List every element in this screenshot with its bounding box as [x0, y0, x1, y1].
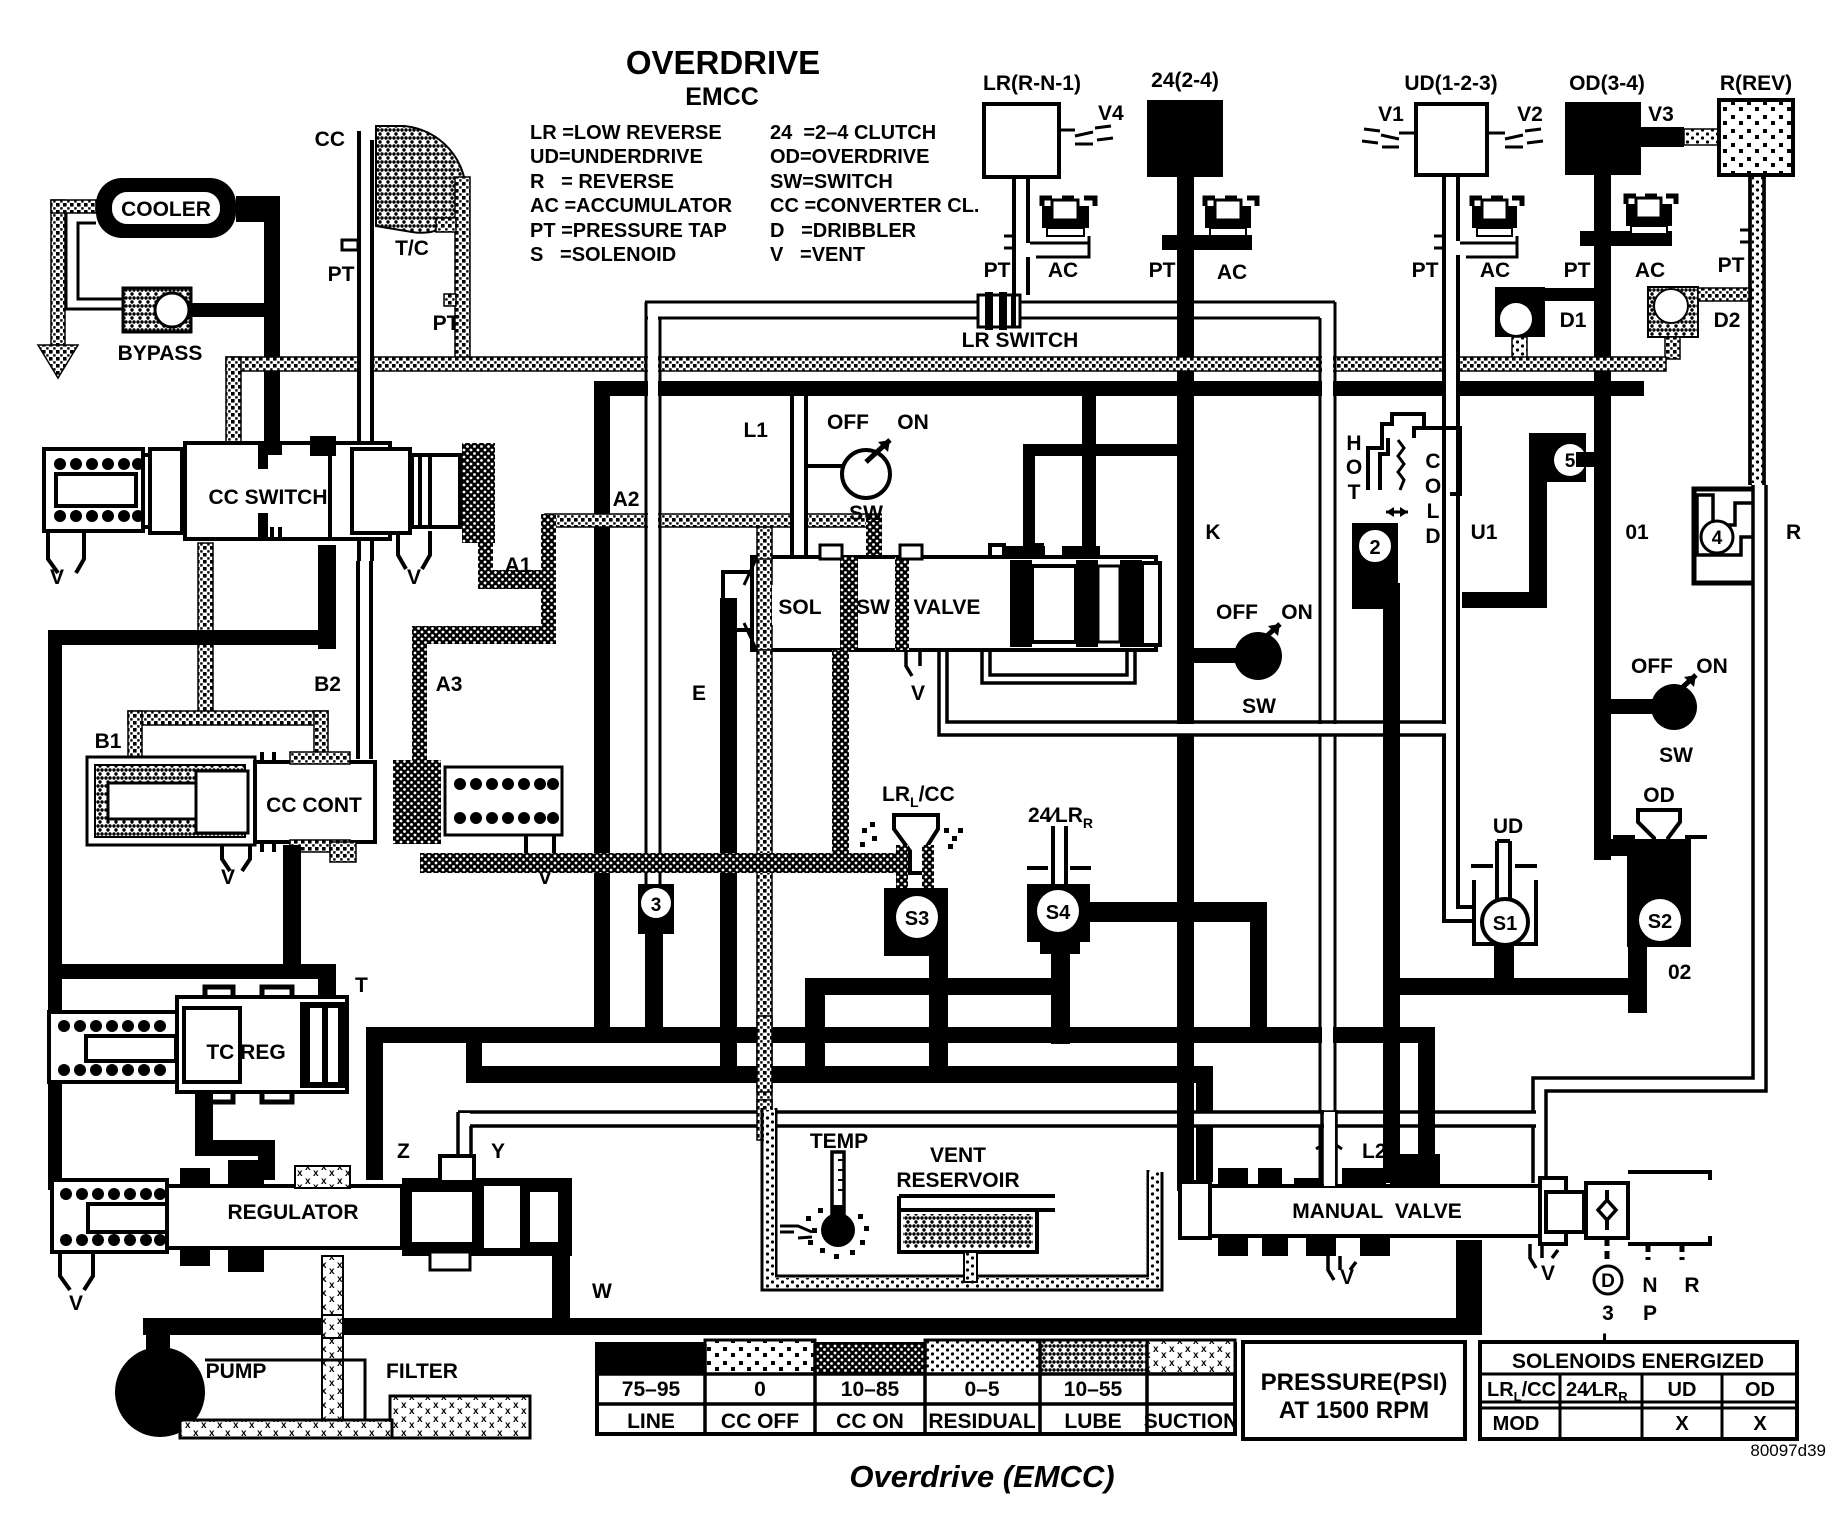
circle3 channel re-stamp over A2 — [648, 506, 658, 534]
svg-text:RESIDUAL: RESIDUAL — [928, 1410, 1036, 1433]
svg-text:V: V — [911, 682, 925, 705]
drain arrowhead — [38, 345, 78, 378]
svg-text:OFF: OFF — [1631, 655, 1673, 678]
cooler drain stipple line — [51, 200, 65, 345]
svg-text:SOL: SOL — [778, 596, 821, 619]
S4 bottom stub — [1051, 954, 1070, 1044]
svg-text:OD: OD — [1643, 784, 1675, 807]
spool center bar — [1540, 1178, 1566, 1244]
V vents below — [1328, 1256, 1356, 1280]
solenoid S2 with funnel — [1594, 784, 1707, 1013]
svg-text:K: K — [1205, 521, 1220, 544]
wire 5 down-left to UD channel — [1529, 482, 1547, 608]
svg-text:10–85: 10–85 — [841, 1378, 900, 1401]
svg-text:PUMP: PUMP — [206, 1360, 267, 1383]
name row — [627, 1410, 1238, 1433]
swatch LUBE dense stipple — [1040, 1340, 1147, 1374]
svg-text:PT: PT — [433, 312, 460, 335]
W port — [552, 1252, 570, 1324]
R stem overlay — [1752, 177, 1763, 483]
svg-text:AC: AC — [1480, 259, 1510, 282]
PT tab on T/C right line — [444, 294, 456, 306]
svg-text:OD(3-4): OD(3-4) — [1569, 72, 1645, 95]
crosshatch line CC CONT to S3 — [420, 853, 896, 873]
solenoid circle 3 — [638, 884, 674, 1030]
svg-text:V: V — [221, 866, 235, 889]
S3 funnel — [894, 815, 938, 873]
switch SW2 (center) — [1194, 601, 1313, 718]
LR clutch box — [984, 104, 1059, 177]
filter — [180, 1360, 530, 1438]
svg-text:0: 0 — [754, 1378, 766, 1401]
stipple bore — [95, 765, 245, 837]
svg-text:V: V — [69, 1292, 83, 1315]
L1 white channel down to solenoid body — [793, 396, 805, 557]
R REV clutch group — [1718, 72, 1793, 485]
Y white channel from R3 area down to regulator — [458, 1113, 1536, 1125]
swatch CC OFF sparse dots — [705, 1340, 815, 1374]
svg-text:L1: L1 — [743, 419, 768, 442]
T/C dome stippled — [376, 126, 466, 233]
bottom black ports — [1218, 1236, 1248, 1256]
svg-text:A3: A3 — [436, 673, 463, 696]
svg-text:AC: AC — [1048, 259, 1078, 282]
LR switch right thin channels — [1020, 302, 1335, 318]
dribbler D1 — [1495, 287, 1595, 359]
thermal valve HOT/COLD — [1346, 414, 1460, 1183]
S1 bottom stub — [1494, 944, 1514, 992]
svg-text:PT: PT — [1149, 259, 1176, 282]
svg-text:FILTER: FILTER — [386, 1360, 458, 1383]
svg-text:TC REG: TC REG — [206, 1041, 285, 1064]
svg-text:SUCTION: SUCTION — [1144, 1410, 1239, 1433]
bypass body — [123, 288, 191, 332]
body — [177, 997, 347, 1092]
B1 stipple loop — [128, 711, 328, 725]
PT tab on R channel — [1740, 230, 1750, 242]
OD clutch group — [1564, 72, 1720, 860]
svg-text:UD: UD — [1493, 815, 1523, 838]
UD stem channel — [1444, 175, 1458, 905]
circle 3 white channel vertical — [646, 302, 660, 884]
SOL label box — [772, 585, 838, 625]
wire R4 solenoid collector line — [805, 978, 1070, 995]
switch SW3 (right) — [1611, 655, 1728, 767]
svg-text:SW: SW — [849, 502, 883, 525]
svg-text:PT: PT — [328, 263, 355, 286]
legend column 1 — [530, 122, 733, 266]
crosshatch band at SW — [840, 557, 858, 650]
A2 stipple line horizontal — [545, 514, 881, 527]
V drain bracket mid — [398, 531, 430, 569]
REGULATOR valve assembly — [52, 1156, 612, 1324]
box 2 drain down — [1383, 583, 1400, 1183]
sprinkle dots around bulb — [806, 1208, 869, 1259]
CC CONT valve assembly — [87, 752, 562, 979]
left end cap — [723, 572, 753, 630]
B2 white channel from CC SWITCH down to CC CONT — [359, 561, 370, 759]
solenoid S4 — [805, 804, 1267, 1078]
svg-text:OFF: OFF — [1216, 601, 1258, 624]
svg-text:COOLER: COOLER — [121, 198, 211, 221]
svg-text:D: D — [1601, 1271, 1615, 1292]
body — [167, 1186, 402, 1248]
V drains — [222, 845, 250, 871]
24 accumulator — [1205, 198, 1257, 236]
wavy element — [1398, 440, 1404, 490]
svg-text:OFF: OFF — [827, 411, 869, 434]
wire T line: left vertical to TC REG — [48, 964, 336, 979]
swatch LINE solid — [597, 1344, 705, 1374]
OD accumulator — [1626, 196, 1676, 234]
spring box right — [445, 767, 562, 835]
S4 body — [1027, 884, 1090, 942]
svg-text:CC: CC — [315, 128, 345, 151]
svg-text:OVERDRIVE: OVERDRIVE — [626, 44, 820, 81]
svg-text:L: L — [1427, 500, 1440, 523]
svg-text:Y: Y — [491, 1140, 505, 1163]
V vent below valve — [906, 650, 920, 676]
svg-text:AC =ACCUMULATOR: AC =ACCUMULATOR — [530, 195, 733, 217]
funnel left feeding bulb — [780, 1226, 812, 1238]
svg-text:A2: A2 — [613, 488, 640, 511]
stipple tube through SOL — [757, 557, 772, 650]
svg-text:T: T — [1348, 481, 1361, 504]
svg-text:CC =CONVERTER CL.: CC =CONVERTER CL. — [770, 195, 979, 217]
V3 black stub and dotted feed to R box — [1641, 127, 1684, 147]
outer shell — [87, 757, 255, 845]
svg-text:24 =2–4 CLUTCH: 24 =2–4 CLUTCH — [770, 122, 936, 144]
thermal element outline — [1368, 414, 1424, 490]
AC connection lines — [1030, 236, 1089, 257]
dribbler D2 — [1648, 287, 1752, 359]
svg-text:3: 3 — [1602, 1302, 1614, 1325]
24 PT/AC bar — [1162, 235, 1252, 250]
svg-text:EMCC: EMCC — [685, 83, 759, 111]
svg-text:10–55: 10–55 — [1064, 1378, 1123, 1401]
solenoid S1 with funnel — [1444, 815, 1537, 992]
circle 3 channel overlay — [648, 304, 658, 884]
svg-text:R: R — [1786, 521, 1801, 544]
L2 channel overlay — [1322, 320, 1333, 1182]
S3 bottom stub down — [929, 956, 948, 1078]
svg-text:V2: V2 — [1517, 103, 1543, 126]
V drain left — [60, 1252, 93, 1290]
S4 stem channel — [1053, 826, 1066, 884]
svg-text:PT: PT — [1412, 259, 1439, 282]
stipple line CC SWITCH down to B1/CC CONT — [198, 543, 213, 713]
TC REG bottom out — [195, 1092, 213, 1152]
UD clutch group — [1362, 72, 1543, 905]
PT tab — [1434, 236, 1444, 248]
svg-text:S3: S3 — [905, 908, 929, 930]
crosshatch output down from SW — [832, 650, 849, 866]
svg-text:X: X — [1753, 1413, 1767, 1435]
svg-text:LRL/CC: LRL/CC — [882, 783, 955, 810]
right section spool — [402, 1178, 572, 1256]
svg-text:D1: D1 — [1560, 309, 1587, 332]
left end cap — [1180, 1182, 1210, 1238]
wire cooler out right — [236, 195, 266, 197]
svg-text:UD(1-2-3): UD(1-2-3) — [1404, 72, 1497, 95]
svg-text:PT =PRESSURE TAP: PT =PRESSURE TAP — [530, 220, 727, 242]
A3 crosshatch line: down from A2 corner, left, down to CC CONT — [412, 626, 556, 644]
swatch RESIDUAL stipple — [925, 1340, 1040, 1374]
wire SW3 to OD stem — [1611, 699, 1653, 714]
svg-text:MANUAL VALVE: MANUAL VALVE — [1292, 1200, 1462, 1223]
svg-text:CC OFF: CC OFF — [721, 1410, 799, 1433]
spring housing left — [44, 449, 143, 531]
svg-text:MOD: MOD — [1493, 1413, 1540, 1435]
PT tab on CC line — [342, 240, 358, 250]
svg-text:U1: U1 — [1471, 521, 1498, 544]
UD accumulator — [1472, 198, 1522, 236]
svg-text:BYPASS: BYPASS — [118, 342, 203, 365]
spool black lands — [1010, 560, 1032, 647]
box 2 — [1352, 523, 1398, 583]
legend column 2 — [770, 122, 979, 266]
T/C white channel down — [357, 131, 361, 561]
24 clutch box solid — [1147, 100, 1223, 177]
svg-text:V =VENT: V =VENT — [770, 244, 865, 266]
torque converter T/C group — [315, 126, 470, 561]
S2 bottom stub — [1628, 947, 1647, 1013]
R REV channel lower: down right side, left, down to manual valve — [1534, 485, 1765, 1183]
top ports: cooler line enters — [264, 440, 280, 455]
wire D1 to OD stem — [1545, 288, 1595, 301]
E black line down from left cap — [720, 598, 737, 1078]
double arrow — [1386, 511, 1408, 514]
top ports — [820, 545, 842, 559]
svg-text:2: 2 — [1369, 537, 1380, 559]
svg-text:80097d39: 80097d39 — [1750, 1441, 1826, 1460]
svg-text:5: 5 — [1565, 451, 1576, 472]
SOL stipple tube re-stamp over R2 R3 — [757, 1016, 772, 1092]
wire cooler bottom to bypass (thin channel) — [66, 213, 123, 309]
svg-text:D: D — [1425, 525, 1440, 548]
spring housing — [52, 1180, 167, 1252]
svg-text:VALVE: VALVE — [914, 596, 981, 619]
value row — [622, 1378, 1123, 1401]
svg-text:N: N — [1642, 1274, 1657, 1297]
long stipple line H1 (CC off return) — [226, 357, 1666, 371]
suction re-stamp over main line — [322, 1315, 343, 1338]
svg-text:ON: ON — [897, 411, 929, 434]
crosshatch section — [393, 760, 441, 844]
svg-text:SOLENOIDS ENERGIZED: SOLENOIDS ENERGIZED — [1512, 1350, 1764, 1373]
svg-text:REGULATOR: REGULATOR — [227, 1201, 358, 1224]
L-channel down from LR switch lines — [1320, 302, 1335, 1182]
svg-text:OD: OD — [1745, 1379, 1775, 1401]
wire R5: S1/S2 bottoms — [1395, 978, 1647, 995]
H2 left corner down (A2 feed line) — [594, 381, 610, 1027]
top notches — [205, 987, 292, 997]
OD stem elbow into S2 — [1594, 839, 1691, 856]
R clutch box dotted fill — [1719, 100, 1793, 175]
svg-text:V: V — [50, 566, 64, 589]
LR switch left thin channel to circle 3 line — [645, 302, 979, 318]
svg-text:S =SOLENOID: S =SOLENOID — [530, 244, 676, 266]
OD stem thick — [1594, 175, 1611, 860]
valve body — [143, 455, 373, 527]
spool lands — [258, 443, 268, 469]
long black line H2 — [594, 381, 1644, 396]
A1 crosshatch channel from valve to A2 — [478, 536, 493, 582]
svg-text:ON: ON — [1281, 601, 1313, 624]
wire Z line: from R2 down at TCREG right — [366, 1043, 383, 1180]
svg-text:O: O — [1346, 456, 1362, 479]
V4 vent notch — [1057, 126, 1113, 144]
svg-text:O: O — [1425, 475, 1441, 498]
L2 white channel — [1322, 1110, 1336, 1186]
L2 channel re-stamp over R2 — [1322, 1018, 1333, 1050]
svg-text:CC CONT: CC CONT — [266, 794, 362, 817]
S4 output corner down to R2 — [1250, 902, 1267, 1043]
svg-text:D =DRIBBLER: D =DRIBBLER — [770, 220, 917, 242]
wire D2 to R channel — [1698, 288, 1752, 301]
wire SW2 to 24 line — [1194, 648, 1236, 663]
V drain bracket left — [48, 531, 84, 573]
re-stamp verticals crossing Y channel — [757, 1100, 772, 1140]
T port stub down into TC REG — [318, 964, 336, 997]
pressure note box — [1243, 1342, 1465, 1439]
right crosshatch block — [462, 443, 495, 543]
PT tab — [1004, 236, 1014, 248]
svg-text:E: E — [692, 682, 706, 705]
svg-text:RESERVOIR: RESERVOIR — [896, 1169, 1019, 1192]
D 3 L N P R labels — [1594, 1266, 1622, 1294]
svg-text:SW: SW — [856, 596, 890, 619]
D2 drain stub — [1665, 337, 1680, 359]
main body — [752, 557, 1156, 650]
pump body outline — [205, 1360, 365, 1420]
svg-text:PRESSURE(PSI): PRESSURE(PSI) — [1261, 1369, 1448, 1396]
wire cooler vertical down — [264, 196, 280, 451]
legend pattern table — [597, 1340, 1238, 1434]
solenoid circle 5 — [1462, 433, 1596, 608]
svg-text:V4: V4 — [1098, 102, 1124, 125]
svg-text:B2: B2 — [314, 673, 341, 696]
svg-text:S4: S4 — [1046, 902, 1071, 924]
svg-text:VENT: VENT — [930, 1144, 986, 1167]
LR clutch group — [962, 72, 1124, 352]
svg-text:PT: PT — [1564, 259, 1591, 282]
svg-text:S1: S1 — [1493, 913, 1517, 935]
svg-text:R: R — [1684, 1274, 1699, 1297]
svg-text:A1: A1 — [505, 554, 532, 577]
LR accumulator — [1042, 198, 1095, 236]
svg-text:H: H — [1346, 432, 1361, 455]
svg-text:V1: V1 — [1378, 103, 1404, 126]
valve loop outline below — [982, 650, 1135, 683]
svg-text:CC SWITCH: CC SWITCH — [209, 486, 328, 509]
A2 left corner down to A3 — [541, 514, 556, 644]
V1 vent notch — [1362, 129, 1416, 147]
tank drain — [964, 1252, 977, 1282]
svg-text:SW: SW — [1242, 695, 1276, 718]
svg-text:P: P — [1643, 1302, 1657, 1325]
wire bypass to main line — [188, 303, 266, 317]
svg-text:SW: SW — [1659, 744, 1693, 767]
24 stem thick — [1177, 177, 1194, 1191]
svg-text:02: 02 — [1668, 961, 1691, 984]
body center — [255, 762, 375, 842]
circle 4 relief bracket — [1694, 489, 1755, 583]
SW1 circle — [842, 450, 890, 498]
cooler body — [96, 178, 236, 238]
solenoid S3 with funnel — [860, 783, 963, 1078]
svg-text:01: 01 — [1625, 521, 1649, 544]
svg-text:B1: B1 — [95, 730, 122, 753]
solenoid valve assembly SOL SW VALVE — [692, 527, 1446, 1120]
svg-text:UD: UD — [1668, 1379, 1697, 1401]
spring housing — [49, 1012, 177, 1082]
svg-text:X: X — [1675, 1413, 1689, 1435]
vent reservoir enclosure stipple channel — [762, 1108, 1162, 1290]
svg-text:D2: D2 — [1714, 309, 1741, 332]
solenoids energized table — [1480, 1342, 1797, 1439]
svg-text:LUBE: LUBE — [1064, 1410, 1121, 1433]
svg-text:ON: ON — [1696, 655, 1728, 678]
manual valve assembly — [1180, 1110, 1710, 1353]
S4 right output to SW2 vertical — [1090, 902, 1267, 922]
S1 body outline — [1474, 880, 1536, 944]
svg-text:24(2-4): 24(2-4) — [1151, 69, 1219, 92]
svg-text:UD=UNDERDRIVE: UD=UNDERDRIVE — [530, 146, 703, 168]
S3 body — [884, 888, 948, 956]
svg-text:LINE: LINE — [627, 1410, 675, 1433]
vent reservoir tank — [896, 1144, 1055, 1282]
svg-text:R(REV): R(REV) — [1720, 72, 1792, 95]
svg-text:Overdrive (EMCC): Overdrive (EMCC) — [849, 1459, 1114, 1494]
LR stem channel — [1014, 177, 1028, 295]
bypass ball — [155, 293, 189, 327]
svg-text:OD=OVERDRIVE: OD=OVERDRIVE — [770, 146, 929, 168]
svg-text:AC: AC — [1217, 261, 1247, 284]
body — [1210, 1186, 1540, 1236]
CC SWITCH port down to left main line — [318, 545, 336, 649]
R stem stipple channel — [1750, 175, 1764, 485]
wire cooler left to drain — [51, 200, 96, 213]
svg-text:AC: AC — [1635, 259, 1665, 282]
CC SWITCH valve assembly — [44, 436, 556, 589]
wire 5-line valve to solenoid 5 — [1023, 444, 1035, 554]
svg-text:4: 4 — [1712, 528, 1723, 549]
svg-text:CC ON: CC ON — [836, 1410, 904, 1433]
switch SW1 (converter clutch switch) — [743, 411, 928, 525]
svg-text:LRL/CC: LRL/CC — [1487, 1379, 1556, 1404]
S2 body — [1627, 845, 1691, 947]
T/C right stipple line — [436, 180, 470, 358]
TC REG valve assembly — [49, 987, 347, 1180]
svg-text:R = REVERSE: R = REVERSE — [530, 171, 674, 193]
S2 funnel — [1638, 810, 1680, 904]
svg-text:T/C: T/C — [395, 237, 429, 260]
svg-text:S2: S2 — [1648, 911, 1672, 933]
right piston rings — [300, 1002, 347, 1088]
svg-text:LR SWITCH: LR SWITCH — [962, 329, 1079, 352]
valve notched top — [990, 545, 1042, 557]
svg-text:TEMP: TEMP — [810, 1130, 868, 1153]
24 clutch group — [1147, 69, 1257, 1191]
UD channel elbow into S1 — [1444, 896, 1474, 921]
svg-text:PT: PT — [1718, 254, 1745, 277]
UD clutch box — [1416, 104, 1487, 175]
wire SW1 to L1 channel — [806, 464, 842, 468]
D1 drain stub — [1512, 337, 1527, 359]
LR switch body — [978, 295, 1020, 327]
pump — [115, 1330, 365, 1437]
